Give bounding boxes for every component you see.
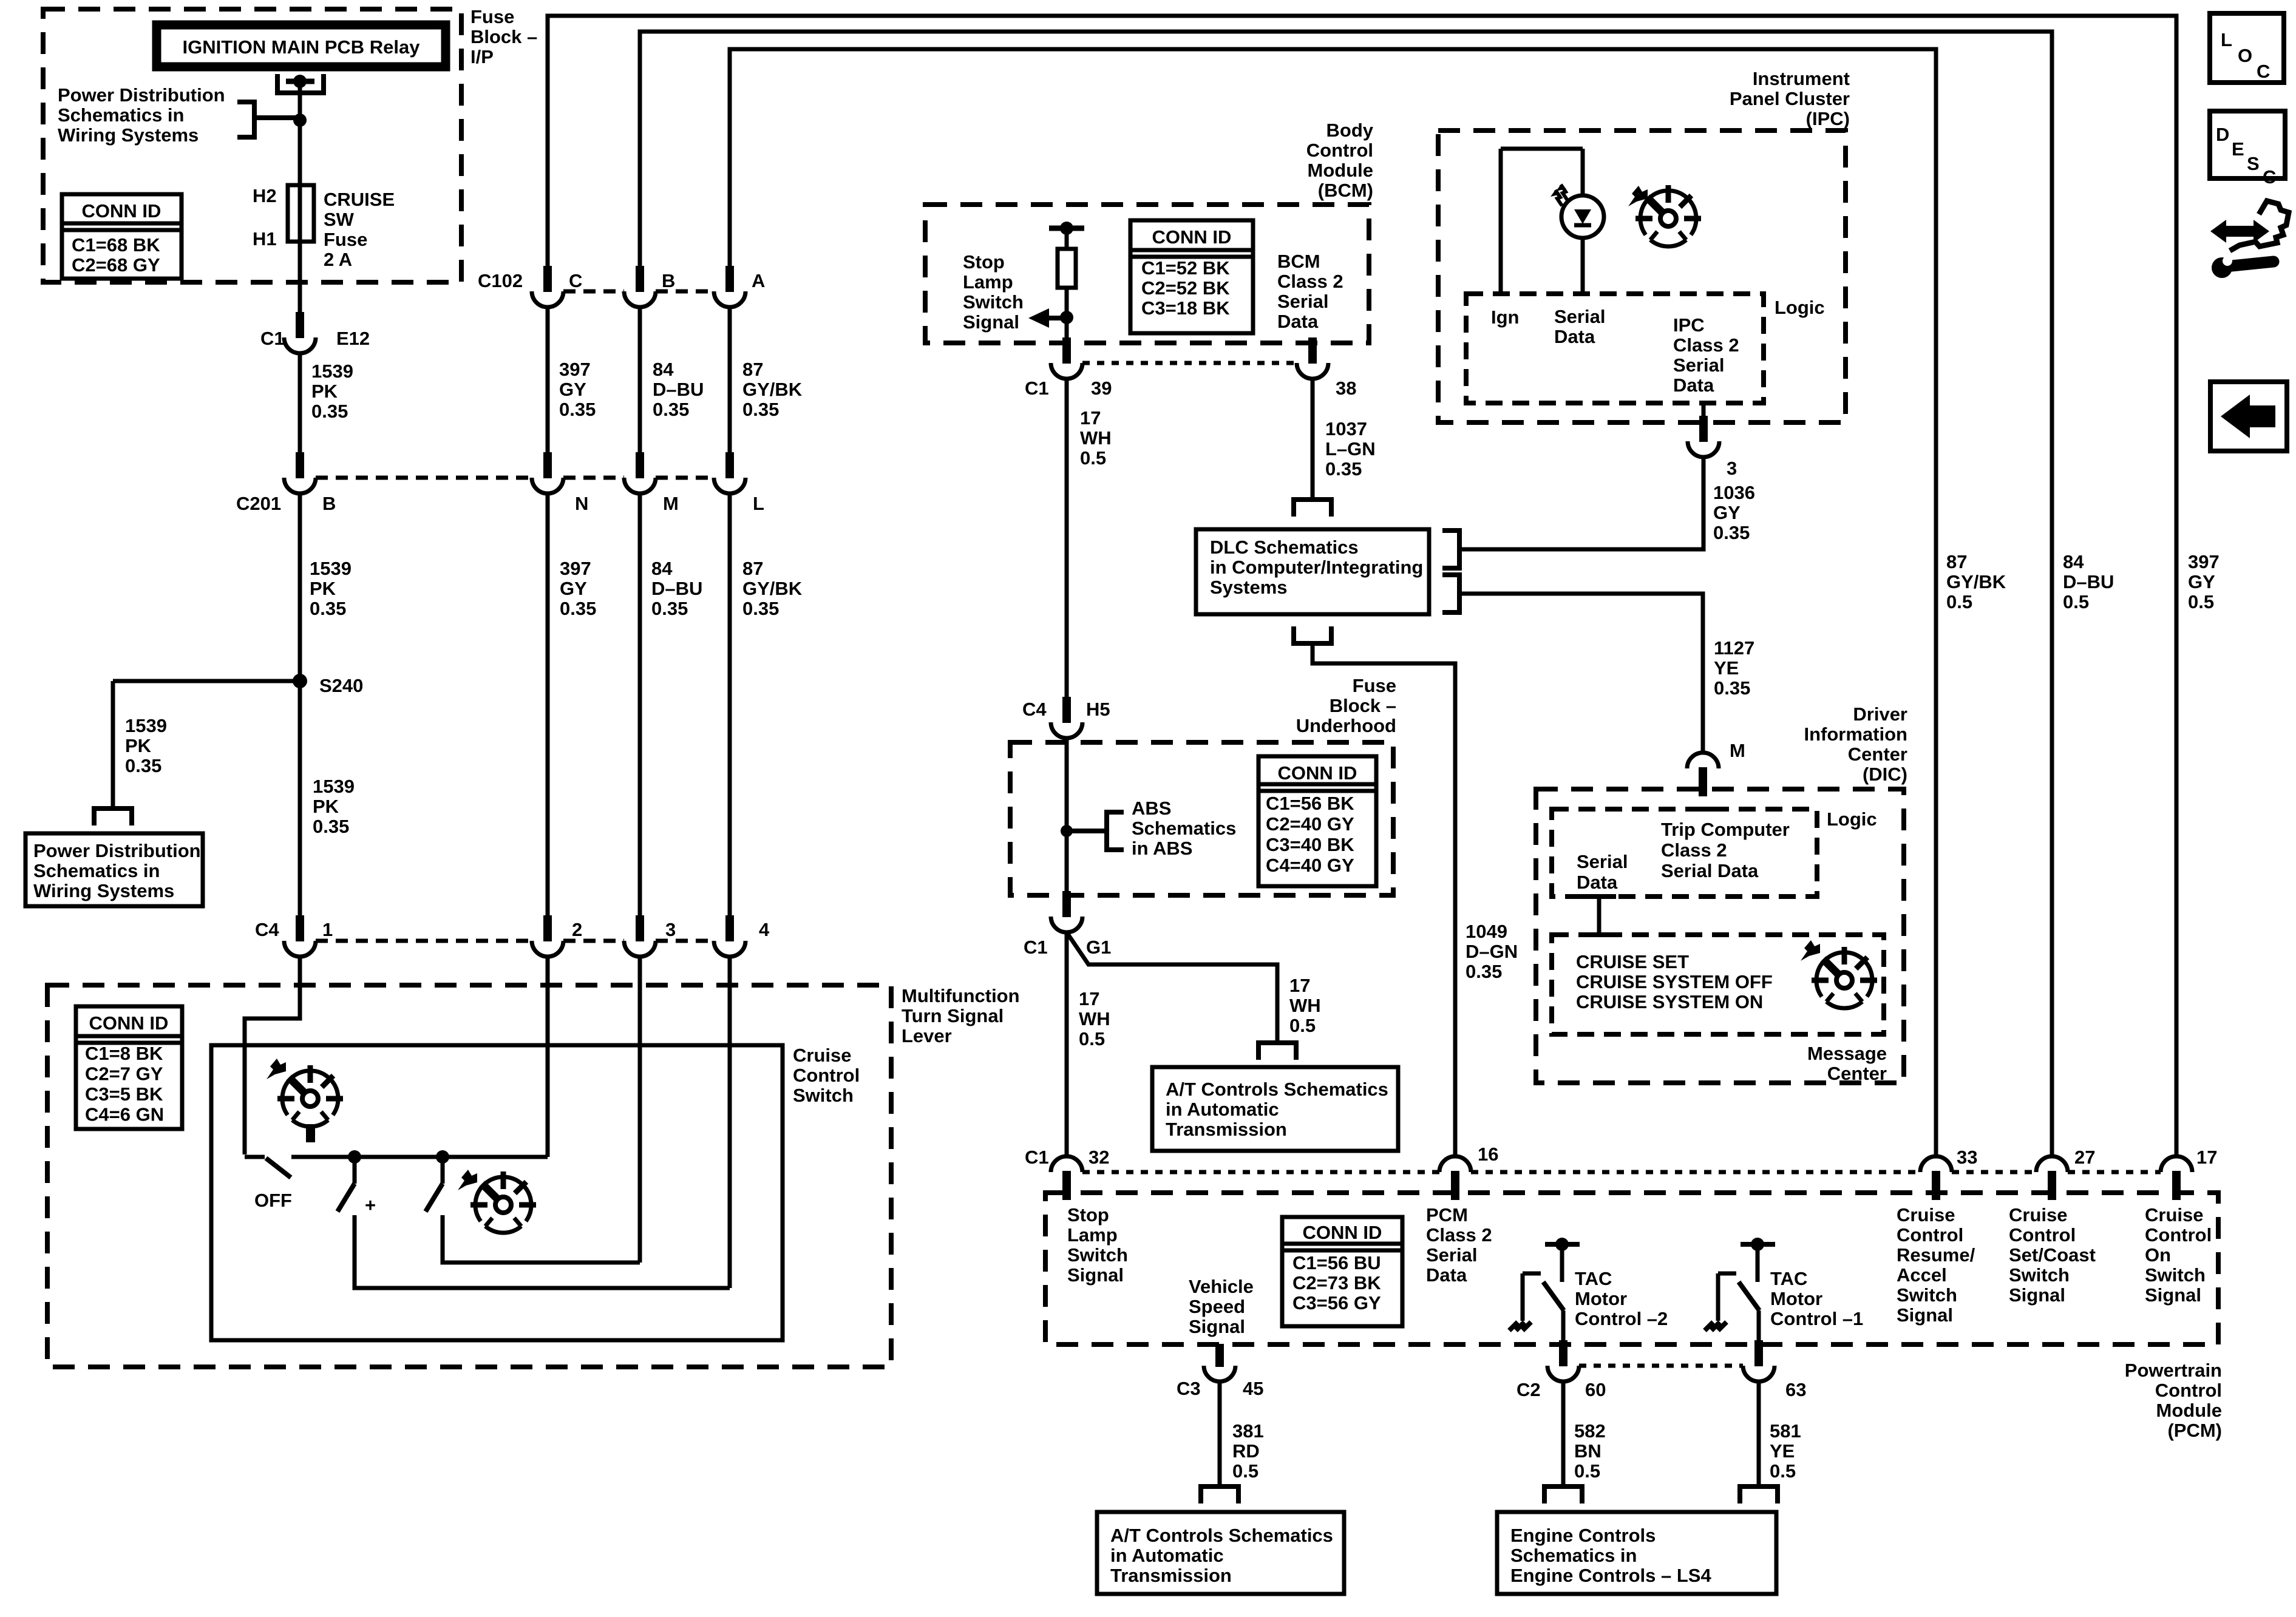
module box: Driver Information Center (DIC) bbox=[1536, 789, 1904, 1083]
svg-text:CRUISE SET: CRUISE SET bbox=[1576, 951, 1689, 972]
connector C4 4 bbox=[714, 915, 746, 957]
svg-text:0.35: 0.35 bbox=[653, 399, 689, 420]
svg-text:OFF: OFF bbox=[254, 1190, 292, 1211]
arrow icon bbox=[458, 1170, 477, 1190]
wire: S240 branch to Power Distribution bbox=[113, 681, 300, 806]
svg-text:(BCM): (BCM) bbox=[1318, 180, 1373, 201]
svg-text:Switch: Switch bbox=[2009, 1264, 2070, 1286]
stop lamp pull-up resistor R (BCM) bbox=[1049, 226, 1084, 231]
svg-text:C1=68 BK: C1=68 BK bbox=[72, 234, 160, 256]
svg-text:+: + bbox=[365, 1195, 376, 1216]
svg-text:Class 2: Class 2 bbox=[1426, 1224, 1492, 1246]
wire: Ign feed bbox=[1501, 149, 1583, 294]
off-page connector below DLC (to PCM 16) bbox=[1294, 626, 1331, 643]
svg-text:Control: Control bbox=[793, 1065, 860, 1086]
svg-text:A: A bbox=[752, 270, 765, 291]
TAC motor control -2 switch bbox=[1545, 1242, 1580, 1247]
svg-text:(IPC): (IPC) bbox=[1806, 108, 1850, 129]
svg-text:Speed: Speed bbox=[1189, 1296, 1245, 1317]
svg-text:A/T Controls Schematics: A/T Controls Schematics bbox=[1110, 1525, 1333, 1546]
connector row TAC bbox=[1579, 1364, 1743, 1368]
svg-text:0.5: 0.5 bbox=[1079, 1028, 1105, 1049]
svg-text:Center: Center bbox=[1827, 1063, 1887, 1084]
svg-text:M: M bbox=[1730, 740, 1745, 761]
gauge icon (IPC) bbox=[1635, 185, 1701, 246]
svg-text:Logic: Logic bbox=[1775, 297, 1825, 318]
svg-text:0.5: 0.5 bbox=[1232, 1460, 1258, 1482]
reference box: Power Distribution Schematics in Wiring Systems bbox=[25, 833, 203, 906]
svg-text:GY/BK: GY/BK bbox=[742, 578, 803, 599]
svg-text:C4=6 GN: C4=6 GN bbox=[85, 1104, 164, 1125]
svg-text:Switch: Switch bbox=[1067, 1244, 1128, 1266]
svg-text:PCM: PCM bbox=[1426, 1204, 1468, 1225]
svg-text:1539: 1539 bbox=[125, 715, 167, 736]
svg-text:E: E bbox=[2232, 138, 2244, 160]
svg-text:Fuse: Fuse bbox=[324, 229, 367, 250]
svg-text:Control: Control bbox=[2009, 1224, 2076, 1246]
svg-text:E12: E12 bbox=[336, 328, 370, 349]
svg-text:Lamp: Lamp bbox=[963, 271, 1013, 293]
svg-text:Data: Data bbox=[1673, 375, 1714, 396]
svg-text:PK: PK bbox=[310, 578, 336, 599]
fuse F: CRUISE SW Fuse 2A bbox=[288, 185, 314, 242]
message center box bbox=[1552, 935, 1884, 1034]
svg-text:Lamp: Lamp bbox=[1067, 1224, 1118, 1246]
wire 582 BN 0.5 bbox=[1561, 1381, 1566, 1484]
connector C2 pin 60 bbox=[1547, 1340, 1579, 1381]
wire: relay to fuse to connector E12 bbox=[298, 81, 302, 319]
svg-text:D–BU: D–BU bbox=[653, 379, 704, 400]
svg-text:(DIC): (DIC) bbox=[1863, 764, 1907, 785]
svg-text:1539: 1539 bbox=[310, 558, 352, 579]
connector PCM pin 16 bbox=[1439, 1156, 1471, 1200]
svg-text:0.35: 0.35 bbox=[559, 399, 596, 420]
connector C201 L bbox=[714, 452, 746, 493]
svg-text:ABS: ABS bbox=[1132, 798, 1171, 819]
svg-text:Engine Controls – LS4: Engine Controls – LS4 bbox=[1510, 1565, 1711, 1586]
svg-text:397: 397 bbox=[560, 558, 591, 579]
svg-text:0.35: 0.35 bbox=[313, 816, 349, 837]
connector C102 A bbox=[714, 266, 746, 307]
svg-text:CONN ID: CONN ID bbox=[82, 200, 161, 222]
arrow icon bbox=[267, 1059, 286, 1079]
reference box: A/T Controls Schematics bbox=[1152, 1067, 1398, 1151]
svg-text:87: 87 bbox=[1946, 551, 1967, 572]
svg-text:N: N bbox=[575, 493, 588, 514]
node: stop lamp signal tap bbox=[1060, 311, 1073, 324]
wire 1539 PK 0.35 (C201 to S240) bbox=[298, 493, 302, 923]
svg-text:1037: 1037 bbox=[1325, 418, 1367, 439]
reference box: DLC Schematics bbox=[1196, 529, 1429, 614]
svg-text:YE: YE bbox=[1770, 1440, 1795, 1462]
svg-text:CONN ID: CONN ID bbox=[1278, 762, 1357, 784]
ground (TAC -2) bbox=[1509, 1322, 1531, 1331]
svg-text:B: B bbox=[322, 493, 336, 514]
svg-text:1049: 1049 bbox=[1466, 921, 1507, 942]
svg-text:CONN ID: CONN ID bbox=[1303, 1222, 1382, 1243]
svg-text:I/P: I/P bbox=[470, 46, 494, 67]
wire: up to C4-3 (84 D-BU) bbox=[638, 957, 642, 1263]
wire 17 WH 0.5 (G1 to PCM 32) bbox=[1065, 932, 1069, 1157]
svg-text:C: C bbox=[2257, 61, 2270, 82]
svg-text:Systems: Systems bbox=[1210, 577, 1288, 598]
svg-text:(PCM): (PCM) bbox=[2167, 1420, 2222, 1441]
svg-text:O: O bbox=[2238, 45, 2252, 66]
svg-text:Stop: Stop bbox=[1067, 1204, 1109, 1225]
off-page connector to A/T Controls (vehicle speed) bbox=[1201, 1486, 1238, 1503]
connector IPC pin 3 bbox=[1702, 403, 1706, 419]
ground (TAC -1) bbox=[1705, 1322, 1727, 1331]
module box: Instrument Panel Cluster (IPC) bbox=[1438, 131, 1846, 422]
node: set/coast tap bbox=[436, 1150, 449, 1164]
node: power distribution tap bbox=[293, 114, 307, 127]
svg-text:Schematics: Schematics bbox=[1132, 818, 1236, 839]
CONN ID table (BCM) bbox=[1130, 220, 1253, 333]
svg-text:GY: GY bbox=[2188, 571, 2215, 592]
gauge icon (DIC) bbox=[1812, 947, 1877, 1008]
svg-text:C2=68 GY: C2=68 GY bbox=[72, 254, 160, 276]
svg-text:Control: Control bbox=[1306, 140, 1373, 161]
svg-text:Switch: Switch bbox=[963, 291, 1024, 313]
connector row PCM bbox=[1082, 1170, 2161, 1175]
gauge icon (set) bbox=[470, 1171, 536, 1233]
wire 1127 YE 0.35 (DLC to DIC M) bbox=[1462, 594, 1703, 753]
svg-text:C1: C1 bbox=[260, 328, 285, 349]
svg-text:in Computer/Integrating: in Computer/Integrating bbox=[1210, 557, 1423, 578]
svg-text:C3: C3 bbox=[1177, 1378, 1201, 1399]
connector PCM C1 pin 32 bbox=[1051, 1156, 1082, 1200]
icon box: DESC bbox=[2210, 111, 2285, 178]
svg-text:C1: C1 bbox=[1024, 937, 1048, 958]
svg-text:D–BU: D–BU bbox=[2063, 571, 2114, 592]
svg-text:On: On bbox=[2145, 1244, 2171, 1266]
svg-text:PK: PK bbox=[125, 735, 152, 756]
svg-text:Ign: Ign bbox=[1491, 307, 1520, 328]
switch: set/coast bbox=[441, 1157, 445, 1184]
wire 84 D-BU: C102 B across to PCM 27 bbox=[640, 32, 2052, 1157]
svg-text:Power Distribution: Power Distribution bbox=[58, 84, 225, 106]
svg-text:0.35: 0.35 bbox=[1714, 677, 1750, 699]
svg-text:H1: H1 bbox=[253, 228, 277, 249]
svg-text:0.35: 0.35 bbox=[651, 598, 688, 619]
svg-text:0.35: 0.35 bbox=[311, 401, 348, 422]
svg-text:Resume/: Resume/ bbox=[1897, 1244, 1975, 1266]
svg-text:Fuse: Fuse bbox=[470, 6, 514, 27]
svg-text:0.35: 0.35 bbox=[1713, 522, 1750, 543]
svg-text:Serial: Serial bbox=[1426, 1244, 1477, 1266]
off-page connector to DLC (from BCM 38) bbox=[1294, 500, 1331, 517]
svg-text:C1=56 BU: C1=56 BU bbox=[1292, 1252, 1381, 1273]
trip computer box bbox=[1552, 809, 1817, 897]
reference box: A/T Controls Schematics (vehicle speed) bbox=[1097, 1512, 1344, 1594]
wire 1036 GY 0.35 (IPC 3 to DLC) bbox=[1462, 457, 1703, 549]
svg-text:L–GN: L–GN bbox=[1325, 438, 1376, 459]
svg-text:CRUISE SYSTEM OFF: CRUISE SYSTEM OFF bbox=[1576, 971, 1773, 992]
CONN ID table (Cruise Control Switch) bbox=[76, 1006, 182, 1129]
wire 87 GY/BK: C102 A across to PCM 33 bbox=[730, 49, 1936, 1157]
node: resume/accel tap bbox=[348, 1150, 361, 1164]
module box: Powertrain Control Module (PCM) bbox=[1045, 1193, 2218, 1344]
svg-text:Power Distribution: Power Distribution bbox=[33, 840, 201, 861]
svg-text:C201: C201 bbox=[236, 493, 281, 514]
svg-text:Cruise: Cruise bbox=[793, 1045, 851, 1066]
connector C102 B bbox=[624, 266, 656, 307]
svg-text:GY: GY bbox=[560, 578, 587, 599]
svg-text:CONN ID: CONN ID bbox=[1152, 226, 1232, 248]
connector M (DIC) bbox=[1687, 753, 1719, 796]
svg-text:Wiring Systems: Wiring Systems bbox=[58, 124, 199, 146]
svg-text:IGNITION MAIN PCB Relay: IGNITION MAIN PCB Relay bbox=[183, 36, 421, 58]
svg-text:D–BU: D–BU bbox=[651, 578, 702, 599]
connector C201 M bbox=[624, 452, 656, 493]
svg-text:C4: C4 bbox=[255, 919, 279, 940]
gauge icon (cruise on position) bbox=[277, 1065, 343, 1127]
svg-text:Control: Control bbox=[1897, 1224, 1963, 1246]
connector BCM C1 pin 39 bbox=[1051, 337, 1082, 379]
svg-text:17: 17 bbox=[1289, 975, 1310, 996]
svg-text:C2=40 GY: C2=40 GY bbox=[1266, 813, 1354, 835]
svg-text:Serial: Serial bbox=[1554, 306, 1605, 327]
bracket: DLC to DIC serial data bbox=[1442, 575, 1459, 612]
module box: Fuse Block - I/P bbox=[43, 9, 461, 282]
svg-text:PK: PK bbox=[313, 796, 339, 817]
bracket: ABS Schematics bbox=[1067, 829, 1107, 833]
connector C201 N bbox=[532, 452, 563, 493]
wire 17 WH 0.5 branch to A/T Controls bbox=[1067, 932, 1277, 1040]
svg-text:27: 27 bbox=[2074, 1147, 2095, 1168]
svg-text:Switch: Switch bbox=[793, 1085, 854, 1106]
svg-text:CONN ID: CONN ID bbox=[89, 1012, 169, 1034]
svg-text:Fuse: Fuse bbox=[1353, 675, 1396, 696]
wire 1037 L-GN 0.35 (38 down to DLC) bbox=[1311, 379, 1315, 497]
svg-text:C2: C2 bbox=[1517, 1379, 1541, 1400]
svg-text:Data: Data bbox=[1277, 311, 1319, 332]
svg-text:H2: H2 bbox=[253, 185, 277, 206]
svg-text:Transmission: Transmission bbox=[1110, 1565, 1232, 1586]
TAC motor control -1 switch bbox=[1741, 1242, 1775, 1247]
svg-text:D–GN: D–GN bbox=[1466, 941, 1518, 962]
svg-text:Block –: Block – bbox=[1330, 695, 1396, 716]
connector PCM pin 27 bbox=[2036, 1156, 2068, 1200]
svg-text:17: 17 bbox=[1080, 407, 1101, 429]
connector C4 1 bbox=[284, 915, 316, 957]
svg-text:63: 63 bbox=[1785, 1379, 1806, 1400]
CONN ID table (PCM) bbox=[1282, 1217, 1402, 1326]
svg-text:C3=56 GY: C3=56 GY bbox=[1292, 1292, 1381, 1314]
svg-text:38: 38 bbox=[1336, 378, 1356, 399]
switch: resume/accel (+) bbox=[353, 1157, 357, 1184]
svg-text:0.35: 0.35 bbox=[1466, 961, 1502, 982]
svg-text:GY/BK: GY/BK bbox=[742, 379, 803, 400]
svg-text:Control –1: Control –1 bbox=[1770, 1308, 1863, 1329]
svg-text:L: L bbox=[753, 493, 764, 514]
svg-text:Class 2: Class 2 bbox=[1673, 334, 1739, 356]
svg-text:Block –: Block – bbox=[470, 26, 537, 47]
svg-text:YE: YE bbox=[1714, 657, 1739, 679]
svg-text:C: C bbox=[2263, 166, 2276, 188]
wire 1049 D-GN 0.35 (DLC to PCM 16) bbox=[1313, 646, 1455, 1157]
svg-text:0.35: 0.35 bbox=[125, 755, 161, 776]
svg-text:Information: Information bbox=[1804, 724, 1908, 745]
svg-text:A/T Controls Schematics: A/T Controls Schematics bbox=[1166, 1079, 1388, 1100]
svg-text:Vehicle: Vehicle bbox=[1189, 1276, 1254, 1297]
svg-text:H5: H5 bbox=[1086, 699, 1110, 720]
svg-text:Set/Coast: Set/Coast bbox=[2009, 1244, 2096, 1266]
svg-text:C4=40 GY: C4=40 GY bbox=[1266, 855, 1354, 876]
wire 1539 PK 0.35 (E12 to C201 B) bbox=[298, 353, 302, 459]
svg-text:C2=73 BK: C2=73 BK bbox=[1292, 1272, 1381, 1293]
svg-text:S240: S240 bbox=[319, 675, 363, 696]
svg-text:Cruise: Cruise bbox=[2145, 1204, 2203, 1225]
svg-text:0.35: 0.35 bbox=[310, 598, 346, 619]
svg-text:Powertrain: Powertrain bbox=[2125, 1360, 2222, 1381]
svg-text:Module: Module bbox=[2156, 1400, 2223, 1421]
svg-text:0.35: 0.35 bbox=[560, 598, 596, 619]
CONN ID table (Fuse Block I/P) bbox=[62, 194, 182, 279]
svg-text:381: 381 bbox=[1232, 1420, 1264, 1442]
off-page connectors to Engine Controls bbox=[1544, 1486, 1582, 1503]
svg-text:Cruise: Cruise bbox=[2009, 1204, 2067, 1225]
I-bar link trip computer to message center bbox=[1597, 897, 1601, 935]
svg-text:in ABS: in ABS bbox=[1132, 838, 1192, 859]
svg-text:C1=56 BK: C1=56 BK bbox=[1266, 793, 1354, 814]
module box: Multifunction Turn Signal Lever bbox=[47, 985, 891, 1367]
svg-text:Turn Signal: Turn Signal bbox=[902, 1005, 1004, 1026]
svg-text:Trip Computer: Trip Computer bbox=[1661, 819, 1790, 840]
wire: up to C4-4 (87 GY/BK) bbox=[728, 957, 732, 1288]
svg-text:Serial: Serial bbox=[1577, 851, 1628, 872]
svg-text:39: 39 bbox=[1091, 378, 1112, 399]
connector C3 pin 45 (vehicle speed) bbox=[1215, 1344, 1224, 1367]
wires C201 to C4 bbox=[548, 493, 730, 923]
svg-text:45: 45 bbox=[1243, 1378, 1263, 1399]
svg-text:GY: GY bbox=[1713, 502, 1741, 523]
svg-text:582: 582 bbox=[1574, 1420, 1606, 1442]
svg-text:Cruise: Cruise bbox=[1897, 1204, 1955, 1225]
svg-text:397: 397 bbox=[2188, 551, 2220, 572]
svg-text:in Automatic: in Automatic bbox=[1166, 1099, 1279, 1120]
arrow: stop lamp switch signal bbox=[1048, 316, 1067, 320]
svg-text:Class 2: Class 2 bbox=[1277, 271, 1343, 292]
svg-text:1127: 1127 bbox=[1714, 637, 1754, 659]
svg-text:Schematics in: Schematics in bbox=[1510, 1545, 1637, 1566]
reference box: Engine Controls Schematics bbox=[1497, 1512, 1776, 1594]
svg-text:Underhood: Underhood bbox=[1296, 715, 1396, 736]
svg-text:Switch: Switch bbox=[1897, 1284, 1957, 1306]
svg-text:Logic: Logic bbox=[1827, 808, 1877, 830]
svg-text:17: 17 bbox=[1079, 988, 1099, 1009]
svg-text:0.35: 0.35 bbox=[742, 598, 779, 619]
node: ABS tap bbox=[1061, 825, 1073, 837]
svg-text:Multifunction: Multifunction bbox=[902, 985, 1020, 1006]
connector C4 H5 bbox=[1051, 697, 1082, 738]
connector C1 E12 bbox=[284, 312, 316, 353]
svg-text:C3=18 BK: C3=18 BK bbox=[1141, 297, 1230, 319]
svg-text:Signal: Signal bbox=[1897, 1304, 1953, 1326]
off-page connector to Power Distribution box bbox=[94, 808, 132, 825]
svg-text:BN: BN bbox=[1574, 1440, 1601, 1462]
svg-text:Serial Data: Serial Data bbox=[1661, 860, 1759, 881]
logic box (IPC) bbox=[1466, 294, 1764, 403]
svg-text:1: 1 bbox=[322, 919, 333, 940]
switch box: Cruise Control Switch bbox=[211, 1045, 783, 1340]
splice S240 bbox=[293, 674, 307, 688]
wire 381 RD 0.5 bbox=[1218, 1381, 1222, 1484]
svg-text:L: L bbox=[2221, 29, 2232, 50]
wire: C4-1 into switch (1539 PK feed) bbox=[245, 957, 300, 1154]
svg-text:Control: Control bbox=[2145, 1224, 2212, 1246]
svg-text:Data: Data bbox=[1554, 326, 1595, 347]
svg-text:G1: G1 bbox=[1086, 937, 1111, 958]
svg-text:Data: Data bbox=[1577, 872, 1618, 893]
bracket: to Power Distribution Schematics bbox=[257, 115, 300, 120]
svg-text:C2=7 GY: C2=7 GY bbox=[85, 1063, 163, 1085]
svg-text:C3=5 BK: C3=5 BK bbox=[85, 1083, 163, 1105]
switch: cruise on/off (OFF) bbox=[245, 1155, 265, 1159]
svg-text:Engine Controls: Engine Controls bbox=[1510, 1525, 1656, 1546]
arrow icon bbox=[1628, 186, 1648, 206]
svg-text:17: 17 bbox=[2196, 1147, 2217, 1168]
arrow icon bbox=[1801, 940, 1820, 961]
svg-text:Instrument: Instrument bbox=[1753, 68, 1850, 89]
off-page connector to A/T Controls bbox=[1258, 1043, 1296, 1060]
svg-text:C1: C1 bbox=[1025, 1147, 1049, 1168]
svg-text:581: 581 bbox=[1770, 1420, 1801, 1442]
icon box: LOC bbox=[2210, 13, 2284, 83]
svg-text:Control: Control bbox=[2155, 1380, 2222, 1401]
svg-text:Schematics in: Schematics in bbox=[58, 104, 184, 126]
connector BCM pin 38 bbox=[1297, 337, 1328, 379]
icon: connector repair (arrow hand wrench) bbox=[2210, 201, 2289, 278]
svg-text:0.5: 0.5 bbox=[1946, 591, 1972, 612]
svg-text:Motor: Motor bbox=[1770, 1288, 1822, 1309]
svg-text:Signal: Signal bbox=[963, 311, 1019, 333]
svg-text:M: M bbox=[663, 493, 679, 514]
svg-text:Stop: Stop bbox=[963, 251, 1005, 273]
svg-text:WH: WH bbox=[1079, 1008, 1110, 1029]
svg-text:84: 84 bbox=[2063, 551, 2084, 572]
svg-text:84: 84 bbox=[651, 558, 673, 579]
svg-text:Serial: Serial bbox=[1277, 291, 1328, 312]
svg-text:PK: PK bbox=[311, 381, 338, 402]
svg-text:Switch: Switch bbox=[2145, 1264, 2206, 1286]
svg-text:Wiring Systems: Wiring Systems bbox=[33, 880, 174, 901]
svg-text:0.5: 0.5 bbox=[2188, 591, 2214, 612]
svg-text:0.35: 0.35 bbox=[1325, 458, 1362, 480]
svg-text:16: 16 bbox=[1478, 1144, 1498, 1165]
wire through fuse block bbox=[1065, 738, 1069, 898]
svg-text:Accel: Accel bbox=[1897, 1264, 1947, 1286]
svg-text:1539: 1539 bbox=[313, 776, 355, 797]
svg-text:WH: WH bbox=[1289, 995, 1321, 1016]
svg-text:Center: Center bbox=[1848, 744, 1907, 765]
svg-text:0.5: 0.5 bbox=[2063, 591, 2089, 612]
svg-text:Message: Message bbox=[1807, 1043, 1887, 1064]
svg-text:TAC: TAC bbox=[1575, 1268, 1612, 1289]
svg-text:C: C bbox=[569, 270, 582, 291]
LED: cruise indicator bbox=[1581, 149, 1585, 294]
svg-text:84: 84 bbox=[653, 359, 674, 380]
svg-text:B: B bbox=[662, 270, 675, 291]
connector PCM pin 17 bbox=[2161, 1156, 2192, 1200]
svg-text:Schematics in: Schematics in bbox=[33, 860, 160, 881]
connector C4 3 bbox=[624, 915, 656, 957]
svg-text:87: 87 bbox=[742, 359, 763, 380]
svg-text:Signal: Signal bbox=[2145, 1284, 2201, 1306]
svg-text:BCM: BCM bbox=[1277, 251, 1320, 272]
svg-text:C1=8 BK: C1=8 BK bbox=[85, 1043, 163, 1064]
connector row BCM bbox=[1082, 361, 1297, 365]
